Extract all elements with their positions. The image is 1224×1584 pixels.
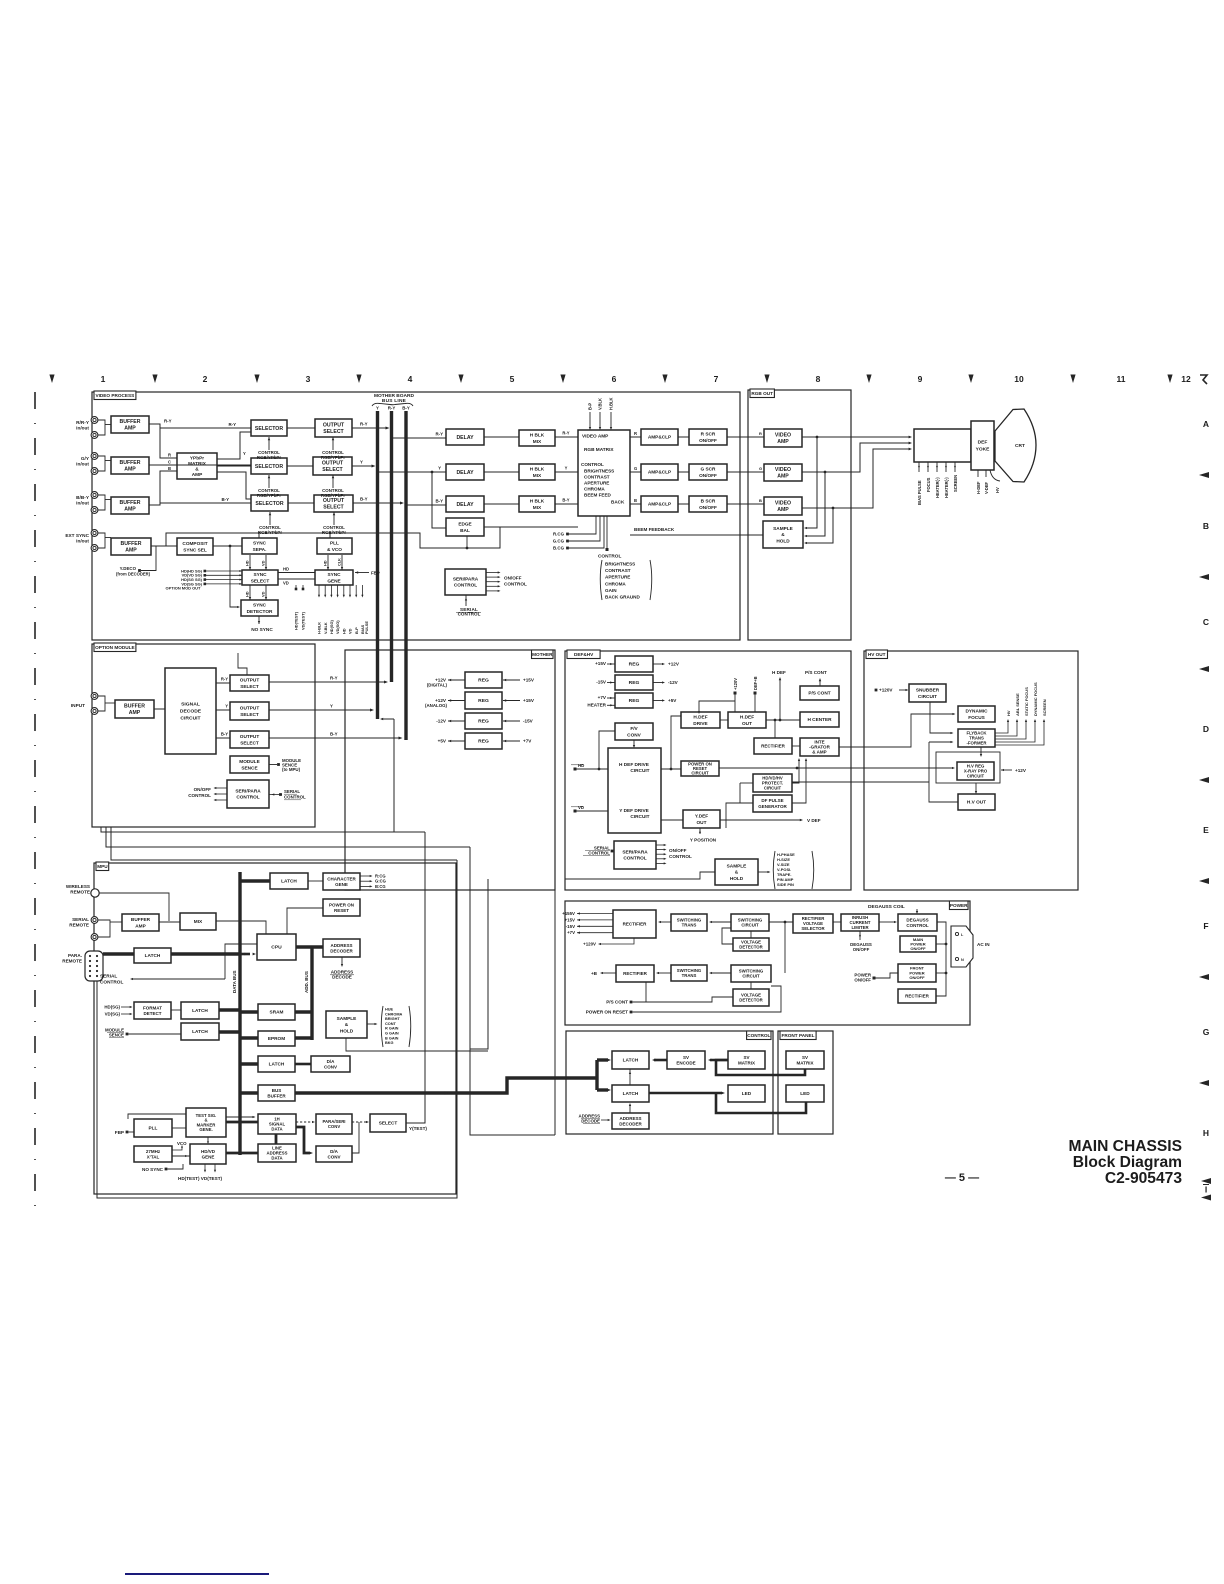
h/v def drive circuit	[608, 748, 661, 833]
wire ext sync buffer to composit	[151, 545, 177, 547]
serial remote connectors	[91, 917, 98, 924]
wire mpu sample hold out	[346, 1038, 488, 1051]
hv outputs fan	[995, 722, 1008, 733]
svg-text:R: R	[759, 431, 762, 436]
svg-text:SCREEN: SCREEN	[1042, 699, 1047, 716]
svg-text:FOCUS: FOCUS	[926, 477, 931, 492]
+120V feed def	[734, 692, 737, 695]
def regulator +15V	[615, 656, 653, 672]
svg-text:CONTROL: CONTROL	[581, 462, 604, 467]
svg-text:ON/OFF: ON/OFF	[909, 975, 925, 980]
sync gene outputs	[318, 585, 320, 595]
svg-text:CIRCUIT: CIRCUIT	[967, 774, 985, 779]
pll top loop	[128, 1114, 186, 1119]
svg-text:CONTROL: CONTROL	[100, 980, 123, 986]
svg-text:MPU: MPU	[97, 864, 108, 869]
h def out to h center	[766, 719, 800, 721]
svg-text:V-DEF: V-DEF	[984, 481, 989, 494]
dynamic focus	[958, 706, 995, 722]
svg-text:CONV: CONV	[328, 1124, 341, 1129]
wire B-Y to bus	[353, 502, 401, 504]
svg-text:REMOTE: REMOTE	[70, 889, 90, 894]
svg-text:BACK: BACK	[611, 500, 625, 505]
svg-text:G/Y: G/Y	[81, 456, 90, 462]
svg-text:B-Y: B-Y	[435, 499, 443, 504]
svg-text:Y: Y	[376, 406, 379, 411]
rectifier outputs	[577, 912, 580, 914]
svg-text:-12V: -12V	[436, 719, 447, 724]
svg-text:+7V: +7V	[523, 739, 532, 744]
svg-text:B-Y: B-Y	[221, 497, 229, 502]
crt socket block	[914, 429, 971, 462]
svg-text:SAMPLE: SAMPLE	[337, 1016, 357, 1022]
svg-text:in/out: in/out	[76, 538, 89, 544]
svg-text:CONTROL: CONTROL	[588, 851, 610, 856]
svg-text:VD: VD	[283, 581, 289, 586]
svg-text:OUTPUT: OUTPUT	[240, 734, 260, 740]
svg-text:ON/OFF: ON/OFF	[854, 978, 871, 983]
svg-text:RGB/YPbPr: RGB/YPbPr	[258, 530, 282, 535]
svg-text:CIRCUIT: CIRCUIT	[691, 771, 709, 776]
para/seri converter	[316, 1114, 352, 1134]
voltage detector 2	[733, 989, 769, 1006]
svg-text:I: I	[1205, 1185, 1207, 1195]
d/a converter 2	[316, 1146, 352, 1162]
thick 1h data to line addr	[275, 1134, 278, 1144]
wire delay to hblkmix R	[484, 436, 519, 438]
wires pll to sync gene	[327, 555, 329, 570]
wires sync sepa to sync select	[249, 555, 251, 570]
svg-text:BUS: BUS	[272, 1088, 282, 1093]
wire rail to sync sepa	[258, 533, 260, 538]
svg-text:Y: Y	[243, 451, 246, 456]
svg-text:STATIC FOCUS: STATIC FOCUS	[1024, 687, 1029, 716]
control RGB/YPbPr label	[268, 475, 270, 488]
wire matrix R-Y out	[217, 432, 251, 459]
switching trans 2	[671, 965, 707, 981]
svg-text:REG: REG	[629, 680, 640, 686]
svg-text:DEF: DEF	[978, 440, 988, 446]
svg-text:BUS LINE: BUS LINE	[382, 398, 407, 404]
regulator +5V	[465, 733, 502, 749]
svg-text:BUFFER: BUFFER	[124, 703, 145, 709]
svg-text:BACK GRAUND: BACK GRAUND	[605, 595, 640, 600]
svg-text:ON/OFF: ON/OFF	[910, 946, 926, 951]
wire hd to f/v conv	[599, 731, 615, 769]
VD input def	[574, 810, 577, 813]
svg-text:SELECT: SELECT	[240, 712, 259, 718]
svg-text:AMP&CLP: AMP&CLP	[648, 502, 671, 508]
wire matrix B-Y out	[217, 472, 251, 499]
svg-text:LIMITER: LIMITER	[851, 925, 868, 930]
crt funnel	[995, 409, 1036, 482]
svg-text:RECTIFIER: RECTIFIER	[623, 922, 648, 927]
svg-text:MIX: MIX	[533, 473, 542, 479]
thick cpu to address decoder	[296, 945, 323, 948]
svg-text:R: R	[634, 431, 637, 436]
svg-text:SCREEN: SCREEN	[953, 475, 958, 492]
svg-text:B-P: B-P	[354, 627, 359, 634]
svg-text:&: &	[195, 466, 199, 472]
selector Y	[251, 458, 287, 474]
svg-text:ON/OFF: ON/OFF	[669, 848, 687, 853]
svg-text:D/A: D/A	[327, 1059, 336, 1064]
svg-text:AMP: AMP	[135, 923, 146, 929]
video amp G out	[764, 464, 802, 481]
serial control label video process	[465, 595, 467, 606]
svg-text:SIDE PIN: SIDE PIN	[777, 882, 794, 887]
svg-text:D/A: D/A	[330, 1149, 339, 1154]
def regulator -15V	[615, 675, 653, 690]
label MOTHER	[532, 650, 554, 659]
svg-text:ON/OFF: ON/OFF	[194, 787, 212, 792]
snubber circuit	[909, 684, 946, 702]
svg-text:DECODE: DECODE	[581, 1119, 600, 1124]
svg-text:(from DECODER): (from DECODER)	[116, 572, 151, 577]
wire delay to hblkmix B	[484, 503, 519, 505]
control RGB/YPbPr label	[333, 512, 335, 525]
wire G into matrix	[155, 464, 177, 466]
svg-text:R-Y: R-Y	[360, 422, 368, 427]
sv encode	[667, 1051, 705, 1069]
v def output	[720, 819, 800, 821]
sync separator	[242, 538, 277, 554]
wire R into matrix	[160, 428, 177, 458]
svg-text:SIGNAL: SIGNAL	[181, 702, 200, 708]
wire ampclp to scr B	[678, 503, 689, 505]
svg-text:HD(TEST) VD(TEST): HD(TEST) VD(TEST)	[178, 1176, 223, 1181]
svg-text:-15V: -15V	[523, 719, 534, 724]
svg-text:CPU: CPU	[271, 945, 282, 951]
svg-text:OUTPUT: OUTPUT	[323, 498, 345, 504]
voltage detector 1	[733, 938, 769, 951]
wire mix to cpu	[216, 921, 266, 934]
svg-text:P/S CONT: P/S CONT	[606, 1000, 628, 1005]
hd/vd generator	[190, 1144, 226, 1164]
svg-text:DECODER: DECODER	[619, 1121, 642, 1126]
svg-text:CHROMA: CHROMA	[605, 581, 626, 586]
svg-text:SNUBBER: SNUBBER	[916, 688, 940, 694]
control brace list video process	[606, 516, 608, 548]
svg-text:HV: HV	[1006, 710, 1011, 716]
svg-text:AMP: AMP	[124, 507, 136, 513]
wire testsig to 1h thin	[226, 1116, 253, 1118]
svg-text:P/S CONT: P/S CONT	[808, 691, 830, 697]
wire rail to pll	[329, 533, 331, 538]
cpu	[257, 934, 296, 960]
wire mix to video amp Y	[555, 471, 578, 473]
HD input def	[574, 768, 577, 771]
svg-text:VIDEO: VIDEO	[775, 467, 791, 473]
brace over bus lines	[372, 403, 413, 406]
svg-text:BUFFER: BUFFER	[119, 460, 140, 466]
f/v converter	[615, 723, 653, 740]
wire y decode	[141, 546, 156, 571]
hv reg to hv out	[975, 783, 977, 791]
svg-text:BUFFER: BUFFER	[119, 419, 140, 425]
svg-text:DETECTOR: DETECTOR	[247, 609, 273, 615]
wire d/a to select line	[352, 1122, 359, 1153]
svg-text:MIX: MIX	[533, 505, 542, 511]
wire buffer to decoder	[154, 708, 165, 710]
svg-text:REG: REG	[478, 678, 489, 684]
power on reset box	[323, 899, 360, 916]
svg-text:OUTPUT: OUTPUT	[323, 422, 345, 428]
power on reset circuit	[681, 761, 719, 776]
rectifier 3	[898, 989, 936, 1003]
rectifier b	[616, 965, 654, 982]
svg-text:B: B	[1203, 521, 1209, 531]
label CONTROL	[747, 1031, 771, 1040]
svg-text:HD/VD: HD/VD	[201, 1149, 216, 1154]
wire drive to ydef out	[661, 819, 683, 821]
thick wire fp sv matrix to control	[716, 1060, 805, 1075]
svg-text:SYNC SEL: SYNC SEL	[183, 547, 207, 553]
svg-text:EDGE: EDGE	[458, 522, 471, 528]
svg-text:H.BLK: H.BLK	[609, 397, 614, 410]
regulator +12V (DIGITAL)	[465, 672, 502, 688]
svg-text:HD: HD	[341, 628, 346, 634]
svg-text:8: 8	[816, 374, 821, 384]
svg-text:LED: LED	[800, 1091, 810, 1097]
address decoder control	[612, 1113, 649, 1129]
svg-text:YPbPr: YPbPr	[190, 456, 204, 462]
svg-text:VIDEO: VIDEO	[775, 500, 791, 506]
svg-text:(to MPU): (to MPU)	[282, 767, 301, 772]
left margin dash-dot binding line	[34, 392, 36, 1218]
svg-text:-FORMER: -FORMER	[967, 740, 987, 745]
P/S CONT up arrow	[819, 681, 821, 686]
svg-text:SV: SV	[683, 1055, 689, 1060]
degauss control to ac	[936, 922, 946, 996]
wire mix to video amp B	[555, 503, 578, 505]
wire B to video amp out	[727, 503, 764, 505]
svg-text:MATRIX: MATRIX	[797, 1060, 814, 1065]
svg-text:TRANS: TRANS	[682, 973, 697, 978]
h def drive	[681, 712, 720, 728]
wire selector to output select R	[287, 427, 315, 429]
section HV OUT	[864, 651, 1078, 890]
svg-text:LATCH: LATCH	[281, 879, 297, 885]
FBP into sync gene	[355, 571, 358, 573]
switching circuit 1	[731, 914, 769, 931]
svg-text:DATA: DATA	[271, 1155, 282, 1160]
wire latch to char gene	[308, 880, 323, 882]
serial control label mpu	[132, 978, 225, 980]
svg-text:H.V OUT: H.V OUT	[967, 800, 986, 806]
svg-text:SYNC: SYNC	[253, 603, 267, 609]
output select option B-Y	[230, 731, 269, 748]
svg-text:HD: HD	[245, 560, 250, 566]
svg-text:AMP: AMP	[777, 474, 789, 480]
delay R-Y	[446, 429, 484, 445]
svg-text:ON/OFF: ON/OFF	[853, 947, 870, 952]
svg-text:E: E	[1203, 825, 1209, 835]
svg-text:REG: REG	[478, 698, 489, 704]
svg-text:BEEM FEED: BEEM FEED	[584, 493, 612, 498]
svg-text:+12V: +12V	[1015, 768, 1027, 773]
wire R-Y to bus	[352, 427, 387, 429]
svg-text:+120V: +120V	[733, 678, 738, 690]
svg-text:B SCR: B SCR	[701, 499, 716, 505]
svg-text:H-DEF: H-DEF	[976, 481, 981, 494]
svg-text:CIRCUIT: CIRCUIT	[741, 923, 759, 928]
address decoder mpu	[323, 939, 360, 957]
format detect	[134, 1002, 171, 1019]
wire p/s cont from option	[106, 827, 470, 847]
def sample hold brace list	[758, 871, 768, 873]
wire decode B-Y	[216, 737, 230, 739]
svg-text:CONTROL: CONTROL	[188, 793, 211, 798]
svg-text:DELAY: DELAY	[456, 502, 474, 508]
para remote d-sub connector	[85, 951, 103, 981]
svg-text:Y: Y	[565, 466, 568, 471]
y def out	[683, 810, 720, 828]
svg-text:12: 12	[1181, 374, 1191, 384]
hd vd test outputs	[204, 1164, 206, 1170]
+120V output	[600, 938, 634, 944]
testsig to hd/vd gene	[207, 1137, 209, 1141]
svg-text:Y POSITION: Y POSITION	[690, 838, 717, 843]
svg-text:V-BLK: V-BLK	[323, 622, 328, 634]
svg-text:G: G	[1203, 1027, 1210, 1037]
svg-text:R-Y: R-Y	[388, 406, 396, 411]
svg-text:SRAM: SRAM	[270, 1010, 284, 1016]
svg-text:Y.DECO: Y.DECO	[120, 566, 137, 571]
svg-text:SELECTOR: SELECTOR	[255, 426, 283, 432]
amp clp B	[641, 496, 678, 512]
svg-text:RGB/YPbPr: RGB/YPbPr	[321, 493, 345, 498]
svg-text:GENE: GENE	[202, 1154, 215, 1159]
signal decode circuit	[165, 668, 216, 754]
svg-text:CIRCUIT: CIRCUIT	[630, 814, 649, 820]
svg-text:B-Y: B-Y	[221, 732, 228, 737]
wire latch1 to latch2	[629, 1069, 631, 1085]
h def out to rectifier	[774, 720, 776, 738]
+12V into hv reg	[1001, 769, 1004, 771]
svg-text:POWER ON RESET: POWER ON RESET	[586, 1010, 628, 1015]
svg-text:ON/OFF: ON/OFF	[504, 576, 522, 581]
wire snubber to flyback	[930, 702, 951, 733]
svg-text:SAMPLE: SAMPLE	[773, 526, 793, 532]
svg-text:DATA BUS: DATA BUS	[232, 971, 237, 994]
svg-text:REG: REG	[629, 698, 640, 704]
svg-text:HEATER(-): HEATER(-)	[944, 477, 949, 498]
wire delay to hblkmix Y	[484, 471, 519, 473]
sample hold def	[715, 859, 758, 885]
svg-text:G SCR: G SCR	[701, 467, 717, 473]
hv lead to crt	[990, 470, 1000, 481]
svg-text:COMPOSIT: COMPOSIT	[182, 541, 207, 547]
svg-text:SEPA.: SEPA.	[253, 547, 267, 553]
option hook wire from video process	[238, 653, 247, 676]
svg-text:REMOTE: REMOTE	[69, 922, 89, 927]
svg-text:5: 5	[510, 374, 515, 384]
svg-text:CLK: CLK	[337, 558, 342, 566]
svg-text:CIRCUIT: CIRCUIT	[180, 716, 200, 722]
svg-text:HV OUT: HV OUT	[868, 652, 886, 657]
svg-text:ADDRESS: ADDRESS	[330, 943, 352, 948]
bus line B-Y (thick)	[404, 411, 407, 740]
p/s cont box	[800, 686, 839, 700]
svg-text:DEF&HV: DEF&HV	[574, 652, 594, 657]
switching circuit 2	[731, 965, 771, 982]
svg-text:+120V: +120V	[879, 688, 893, 693]
svg-text:CIRCUIT: CIRCUIT	[764, 786, 782, 791]
top ruler column markers	[49, 374, 1207, 384]
svg-text:BIAS PULSE: BIAS PULSE	[917, 480, 922, 505]
svg-text:CONTROL: CONTROL	[906, 923, 929, 928]
svg-text:Y: Y	[225, 704, 228, 709]
led front panel	[786, 1085, 824, 1102]
svg-text:C: C	[1203, 617, 1209, 627]
video amp R G B outputs	[630, 436, 641, 438]
output select Y	[313, 457, 352, 475]
power on/off input	[873, 977, 876, 980]
svg-text:NO SYNC: NO SYNC	[251, 627, 273, 633]
svg-text:B-Y: B-Y	[562, 498, 569, 503]
svg-text:R.CG: R.CG	[553, 532, 565, 537]
svg-text:R-Y: R-Y	[435, 432, 443, 437]
svg-text:&: &	[345, 1022, 349, 1028]
svg-text:SERIAL: SERIAL	[72, 917, 89, 922]
wire selector to output select G	[287, 465, 313, 467]
wire pll to testsig	[172, 1127, 186, 1129]
wire reset to cpu	[287, 908, 323, 934]
wire bus to delay Y	[378, 471, 446, 473]
thick testsig to 1h data	[226, 1121, 258, 1124]
svg-text:+15V: +15V	[595, 661, 607, 666]
svg-text:REG: REG	[629, 662, 640, 668]
wire bus to delay R-Y	[392, 437, 446, 439]
svg-text:OPTION MOD OUT: OPTION MOD OUT	[166, 586, 202, 591]
svg-text:OUTPUT: OUTPUT	[240, 706, 260, 712]
connector EXT SYNC in/out	[91, 530, 98, 537]
svg-text:H-BLK: H-BLK	[317, 622, 322, 634]
svg-text:HD(SG): HD(SG)	[329, 620, 334, 634]
wireless remote connector	[91, 889, 99, 897]
module sence box	[230, 756, 269, 773]
svg-text:ADDRESS: ADDRESS	[619, 1116, 641, 1121]
svg-text:LATCH: LATCH	[269, 1062, 285, 1068]
svg-text:TRANS: TRANS	[682, 923, 697, 928]
svg-text:VD: VD	[578, 805, 584, 810]
svg-text:BAL: BAL	[460, 528, 470, 534]
label OPTION MODULE	[94, 643, 136, 652]
svg-text:CHARACTER: CHARACTER	[327, 876, 356, 881]
svg-text:+5V: +5V	[438, 739, 447, 744]
svg-text:MIX: MIX	[533, 439, 542, 445]
svg-text:BUFFER: BUFFER	[267, 1093, 286, 1098]
svg-text:BRIGHTNESS: BRIGHTNESS	[584, 469, 614, 474]
svg-text:B.CG: B.CG	[553, 546, 565, 551]
svg-text:DECODE: DECODE	[180, 709, 202, 715]
flyback transformer	[958, 729, 995, 747]
output select B-Y	[314, 495, 353, 512]
svg-text:GENE.: GENE.	[199, 1127, 212, 1132]
hd/vd/hv protect circuit	[753, 774, 792, 792]
svg-text:CONTROL: CONTROL	[236, 795, 259, 801]
svg-text:CIRCUIT: CIRCUIT	[742, 974, 760, 979]
rectifier def	[754, 738, 792, 754]
svg-text:(DIGITAL): (DIGITAL)	[427, 683, 448, 688]
svg-text:+5V: +5V	[668, 698, 677, 703]
svg-text:R-Y: R-Y	[330, 676, 338, 681]
seri/para control def	[614, 841, 656, 869]
svg-text:B GAIN: B GAIN	[385, 1036, 399, 1040]
edge balance	[446, 518, 484, 536]
svg-text:+7V: +7V	[567, 930, 575, 935]
